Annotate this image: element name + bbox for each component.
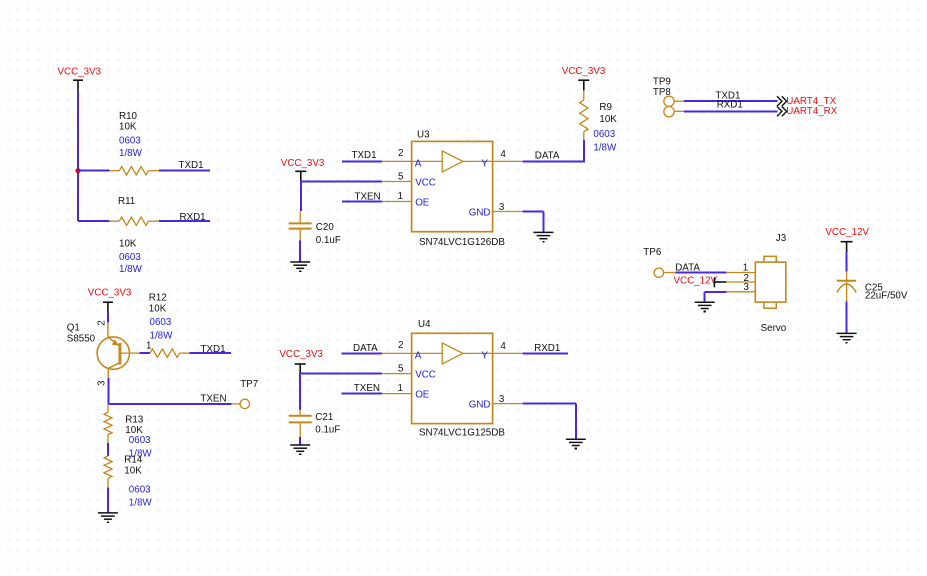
svg-text:J3: J3 <box>776 233 787 244</box>
J3 pin 1 <box>726 272 755 274</box>
port UART4_RX <box>777 107 787 117</box>
svg-text:1: 1 <box>398 191 403 202</box>
op-amp U3 body <box>412 141 493 231</box>
resistor R10 <box>110 170 120 172</box>
U4 pin 4 stub <box>493 352 523 354</box>
wire R10 left <box>78 170 110 172</box>
wire Q1 collector <box>107 378 109 404</box>
svg-text:RXD1: RXD1 <box>180 212 206 223</box>
wire RXD1 (TP8) <box>674 110 684 112</box>
wire DATA (U3 out) <box>522 160 584 162</box>
svg-text:R11: R11 <box>118 196 135 207</box>
U3 pin 1 stub <box>382 201 412 203</box>
port UART4_TX <box>777 96 787 106</box>
U3 pin 4 stub <box>493 160 523 162</box>
resistor R11 <box>110 220 120 222</box>
svg-text:TXEN: TXEN <box>355 192 381 203</box>
op-amp U4 body <box>412 333 493 423</box>
svg-text:U3: U3 <box>417 129 430 140</box>
svg-text:C21: C21 <box>315 412 333 423</box>
svg-text:1/8W: 1/8W <box>593 143 617 154</box>
svg-text:VCC_3V3: VCC_3V3 <box>88 287 132 298</box>
svg-text:5: 5 <box>398 172 404 183</box>
ground (R14) <box>98 512 118 514</box>
svg-text:UART4_RX: UART4_RX <box>786 106 837 117</box>
wire TXD1 to U3 <box>342 160 382 162</box>
wire RXD1 (R11) <box>159 220 210 222</box>
svg-text:U4: U4 <box>418 319 431 330</box>
svg-text:10K: 10K <box>149 303 167 314</box>
test point TP7 <box>232 403 241 405</box>
svg-text:1/8W: 1/8W <box>150 330 174 341</box>
ground (J3) <box>695 301 715 303</box>
svg-text:DATA: DATA <box>675 262 700 273</box>
svg-text:TXEN: TXEN <box>200 393 226 404</box>
svg-text:TXEN: TXEN <box>354 383 380 394</box>
svg-text:OE: OE <box>415 197 430 208</box>
svg-text:VCC_12V: VCC_12V <box>674 275 718 286</box>
svg-text:0603: 0603 <box>119 136 141 147</box>
test point TP8 <box>664 107 674 117</box>
svg-text:0603: 0603 <box>150 317 172 328</box>
svg-text:TP6: TP6 <box>643 247 662 258</box>
svg-text:1/8W: 1/8W <box>129 497 153 508</box>
svg-text:1: 1 <box>398 383 403 394</box>
wire VCC_12V to C25 <box>846 252 848 271</box>
resistor R14 <box>104 456 112 478</box>
svg-text:Y: Y <box>481 159 488 170</box>
svg-text:2: 2 <box>398 148 403 159</box>
svg-text:GND: GND <box>469 400 491 411</box>
svg-text:TXD1: TXD1 <box>352 150 377 161</box>
connector J3 body <box>764 256 776 263</box>
ground (C20) <box>290 261 310 263</box>
wire R14 to gnd <box>107 488 109 513</box>
svg-text:1: 1 <box>743 262 748 273</box>
svg-text:C20: C20 <box>316 222 335 233</box>
svg-text:S8550: S8550 <box>67 334 96 345</box>
wire R11 left <box>78 220 110 222</box>
svg-text:10K: 10K <box>119 239 137 250</box>
svg-text:R14: R14 <box>124 454 143 465</box>
svg-text:0603: 0603 <box>593 129 615 140</box>
wire C25 to gnd <box>846 302 848 334</box>
wire R9 to DATA <box>583 140 585 162</box>
svg-text:2: 2 <box>97 320 108 325</box>
svg-text:Q1: Q1 <box>67 323 80 334</box>
svg-text:RXD1: RXD1 <box>534 343 560 354</box>
U3 pin 5 stub <box>382 181 412 183</box>
capacitor C21 <box>299 410 301 415</box>
svg-text:4: 4 <box>500 341 506 352</box>
ground (C25) <box>837 332 857 334</box>
wire VCC to U4 pin5 <box>299 373 301 410</box>
svg-text:VCC: VCC <box>415 178 436 189</box>
U3 pin 2 stub <box>382 160 412 162</box>
svg-text:1/8W: 1/8W <box>119 264 143 275</box>
svg-text:0.1uF: 0.1uF <box>315 425 340 436</box>
ground (U4) <box>566 438 586 440</box>
svg-text:0603: 0603 <box>129 484 151 495</box>
svg-text:R9: R9 <box>599 102 612 113</box>
wire Q1 base <box>139 352 150 354</box>
J3 pin 2 <box>726 281 755 283</box>
resistor R9 <box>583 90 585 100</box>
wire TXEN <box>107 403 231 405</box>
svg-text:3: 3 <box>97 380 108 386</box>
svg-text:1/8W: 1/8W <box>119 148 143 159</box>
svg-text:Servo: Servo <box>761 323 787 334</box>
svg-text:10K: 10K <box>124 466 142 477</box>
svg-text:VCC_12V: VCC_12V <box>825 227 869 238</box>
svg-text:1: 1 <box>146 340 151 351</box>
svg-text:SN74LVC1G125DB: SN74LVC1G125DB <box>419 427 505 438</box>
junction dot <box>76 168 81 173</box>
svg-text:TP7: TP7 <box>240 379 258 390</box>
wire TXD1 (TP9) <box>674 100 684 102</box>
wire R13-R14 <box>107 443 109 456</box>
svg-text:R13: R13 <box>125 414 144 425</box>
wire C21 to gnd <box>299 437 301 445</box>
svg-text:GND: GND <box>469 208 491 219</box>
wire RXD1 (U4 out) <box>522 352 568 354</box>
transistor Q1 <box>97 337 129 369</box>
wire C20 to gnd <box>299 241 301 262</box>
svg-text:4: 4 <box>500 149 506 160</box>
svg-text:0.1uF: 0.1uF <box>316 235 341 246</box>
svg-text:10K: 10K <box>599 114 617 125</box>
svg-text:5: 5 <box>398 364 404 375</box>
svg-text:A: A <box>415 159 422 170</box>
svg-text:OE: OE <box>415 389 430 400</box>
svg-text:VCC_3V3: VCC_3V3 <box>58 66 102 77</box>
svg-text:SN74LVC1G126DB: SN74LVC1G126DB <box>419 237 505 248</box>
wire DATA (J3) <box>675 272 726 274</box>
svg-text:Y: Y <box>481 351 488 362</box>
svg-text:RXD1: RXD1 <box>717 100 743 111</box>
wire U4 gnd <box>522 403 576 405</box>
capacitor C20 <box>299 211 301 222</box>
U4 pin 2 stub <box>382 352 412 354</box>
svg-text:VCC_3V3: VCC_3V3 <box>281 158 325 169</box>
svg-text:VCC: VCC <box>415 370 436 381</box>
svg-text:TP9: TP9 <box>653 77 671 88</box>
svg-text:DATA: DATA <box>535 151 560 162</box>
test point TP9 <box>664 96 674 106</box>
svg-text:0603: 0603 <box>119 252 141 263</box>
svg-text:3: 3 <box>743 282 749 293</box>
capacitor C25 <box>846 271 848 280</box>
svg-text:10K: 10K <box>119 121 137 132</box>
J3 pin 3 <box>726 291 755 293</box>
svg-text:R12: R12 <box>149 292 167 303</box>
svg-text:TXD1: TXD1 <box>201 344 226 355</box>
svg-text:A: A <box>415 351 422 362</box>
wire TXD1 (R10) <box>159 170 210 172</box>
wire DATA to U4 <box>342 352 382 354</box>
svg-text:DATA: DATA <box>353 343 378 354</box>
ground (C21) <box>290 444 310 446</box>
wire TXEN to U3 <box>342 201 382 203</box>
svg-text:VCC_3V3: VCC_3V3 <box>279 349 323 360</box>
wire VCC_3V3 vertical <box>77 90 79 221</box>
test point TP6 <box>654 268 663 277</box>
wire TXEN to U4 <box>342 393 382 395</box>
resistor R12 <box>150 349 180 357</box>
svg-text:22uF/50V: 22uF/50V <box>865 291 908 302</box>
svg-text:0603: 0603 <box>129 435 151 446</box>
wire J3 pin3 <box>705 291 727 293</box>
wire U3 gnd <box>522 211 543 213</box>
ground (U3) <box>533 231 553 233</box>
wire TXD1 (Q1) <box>189 352 231 354</box>
svg-text:VCC_3V3: VCC_3V3 <box>562 66 606 77</box>
U4 pin 1 stub <box>382 393 412 395</box>
svg-text:3: 3 <box>499 202 505 213</box>
resistor R13 <box>107 404 109 413</box>
U4 pin 5 stub <box>382 373 412 375</box>
wire VCC to Q1 <box>107 313 109 323</box>
svg-text:2: 2 <box>398 340 403 351</box>
wire VCC to pin5 <box>300 181 302 212</box>
svg-text:3: 3 <box>499 394 505 405</box>
U3 pin 3 stub <box>493 211 523 213</box>
svg-text:TXD1: TXD1 <box>179 160 204 171</box>
U4 pin 3 stub <box>493 403 523 405</box>
